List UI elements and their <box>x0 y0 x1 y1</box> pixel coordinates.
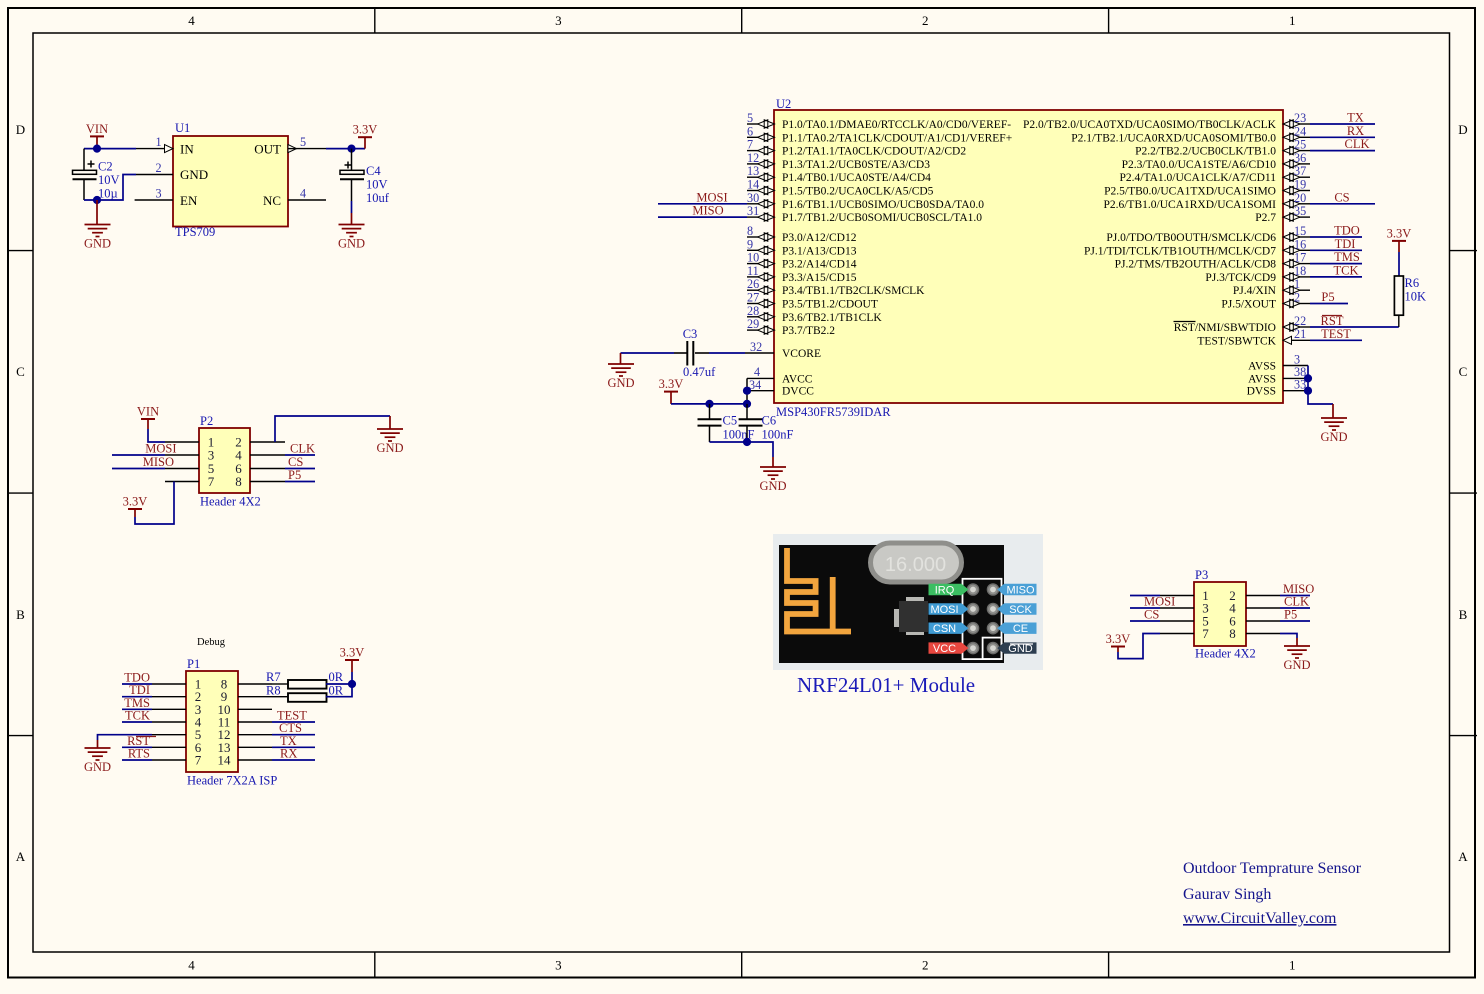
wire net CTS from P1 pin12 <box>272 721 315 735</box>
svg-text:C6: C6 <box>762 414 777 428</box>
svg-text:C: C <box>1459 364 1468 379</box>
U2 pin 3 AVSS <box>1248 353 1308 373</box>
svg-text:3.3V: 3.3V <box>353 123 378 137</box>
svg-text:37: 37 <box>1294 164 1306 178</box>
wire C3 to ground <box>621 352 688 354</box>
U2 pin 33 DVSS <box>1247 378 1308 398</box>
svg-text:14: 14 <box>218 753 232 768</box>
P1 pin 10 <box>218 702 273 717</box>
svg-text:MOSI: MOSI <box>696 190 727 204</box>
svg-text:30: 30 <box>747 191 759 205</box>
svg-text:7: 7 <box>747 138 753 152</box>
P1 pin 5 <box>152 727 201 742</box>
svg-text:VCORE: VCORE <box>782 348 821 360</box>
svg-text:VCC: VCC <box>933 643 956 655</box>
svg-text:3.3V: 3.3V <box>1106 632 1131 646</box>
P1 pin 13 <box>218 740 273 755</box>
svg-text:DVCC: DVCC <box>782 386 814 398</box>
svg-text:PJ.3/TCK/CD9: PJ.3/TCK/CD9 <box>1205 272 1276 284</box>
svg-text:P2.3/TA0.0/UCA1STE/A6/CD10: P2.3/TA0.0/UCA1STE/A6/CD10 <box>1122 159 1277 171</box>
svg-text:IN: IN <box>180 142 194 157</box>
capacitor C6 100nF <box>739 404 794 442</box>
wire net P5 from P2 pin8 <box>285 468 315 482</box>
svg-text:P1.4/TB0.1/UCA0STE/A4/CD4: P1.4/TB0.1/UCA0STE/A4/CD4 <box>782 172 931 184</box>
power flag 3.3V at U1 output <box>353 123 378 149</box>
wire P3 pin8 to ground <box>1280 634 1297 639</box>
svg-text:27: 27 <box>747 291 759 305</box>
svg-text:17: 17 <box>1294 251 1306 265</box>
svg-text:MISO: MISO <box>143 455 174 469</box>
svg-text:14: 14 <box>747 178 759 192</box>
U2 pin 21 TEST/SBWTCK <box>1197 327 1310 347</box>
U2 pin 36 P2.3 <box>1122 151 1310 171</box>
svg-text:1: 1 <box>155 135 161 149</box>
svg-text:U1: U1 <box>175 121 190 135</box>
resistor R8 0R <box>266 684 344 702</box>
svg-text:GND: GND <box>607 376 634 390</box>
svg-text:P2.4/TA1.0/UCA1CLK/A7/CD11: P2.4/TA1.0/UCA1CLK/A7/CD11 <box>1120 172 1277 184</box>
svg-text:10V: 10V <box>98 173 120 187</box>
wire net TEST from U2 pin 21 <box>1310 327 1362 341</box>
U2 pin 34 DVCC <box>747 378 814 398</box>
junction OUT/C4 <box>347 145 355 153</box>
svg-text:CLK: CLK <box>1284 595 1309 609</box>
wire net MOSI to U2 pin 30 <box>658 190 747 204</box>
svg-text:PJ.5/XOUT: PJ.5/XOUT <box>1221 299 1276 311</box>
wire net CLK from U2 pin 25 <box>1310 137 1375 151</box>
wire 3.3V to P3 pin7 <box>1118 634 1160 659</box>
ground GND left of C3 <box>607 353 634 390</box>
svg-text:3: 3 <box>555 13 562 28</box>
power flag VIN at P2 <box>137 405 159 430</box>
svg-text:OUT: OUT <box>254 142 281 157</box>
svg-text:7: 7 <box>208 474 215 489</box>
svg-text:AVSS: AVSS <box>1248 361 1276 373</box>
svg-text:P2.2/TB2.2/UCB0CLK/TB1.0: P2.2/TB2.2/UCB0CLK/TB1.0 <box>1135 146 1276 158</box>
U2 pin 14 P1.5 <box>747 178 934 198</box>
header P1 Header 7X2A ISP body <box>186 657 277 788</box>
svg-text:36: 36 <box>1294 151 1306 165</box>
P1 pin 9 <box>221 689 272 704</box>
wire net CLK from P3 pin4 <box>1280 595 1310 609</box>
junction AVSS pin38 <box>1304 374 1312 382</box>
U2 pin 5 P1.0 <box>747 111 1011 131</box>
svg-text:22: 22 <box>1294 314 1306 328</box>
svg-text:16: 16 <box>1294 237 1306 251</box>
wire net CS to P3 pin5 <box>1130 608 1160 622</box>
NRF24L01 module PCB <box>779 545 1004 663</box>
svg-text:SCK: SCK <box>1009 604 1032 616</box>
ground GND at P3 <box>1283 638 1310 672</box>
svg-text:www.CircuitValley.com: www.CircuitValley.com <box>1183 910 1337 927</box>
text NRF24L01+ Module <box>797 673 975 697</box>
svg-text:MSP430FR5739IDAR: MSP430FR5739IDAR <box>776 405 891 419</box>
U2 pin 10 P3.2 <box>747 251 857 271</box>
junction VIN/C2 <box>93 145 101 153</box>
wire net RTS to P1 pin7 <box>122 747 152 761</box>
svg-text:CE: CE <box>1013 623 1028 635</box>
svg-text:P3.1/A13/CD13: P3.1/A13/CD13 <box>782 245 857 257</box>
capacitor C5 100nF <box>698 404 755 442</box>
svg-text:Header 4X2: Header 4X2 <box>200 495 261 509</box>
svg-text:13: 13 <box>747 164 759 178</box>
P2 pin 8 <box>235 474 285 489</box>
wire VIN to P2 pin1 <box>148 429 165 442</box>
svg-text:C: C <box>16 364 25 379</box>
svg-text:P1.0/TA0.1/DMAE0/RTCCLK/A0/CD0: P1.0/TA0.1/DMAE0/RTCCLK/A0/CD0/VEREF- <box>782 119 1011 131</box>
svg-text:8: 8 <box>1229 626 1236 641</box>
svg-text:P1.1/TA0.2/TA1CLK/CDOUT/A1/CD1: P1.1/TA0.2/TA1CLK/CDOUT/A1/CD1/VEREF+ <box>782 132 1012 144</box>
P1 pin 6 <box>152 740 202 755</box>
svg-text:7: 7 <box>195 753 202 768</box>
svg-text:P3.6/TB2.1/TB1CLK: P3.6/TB2.1/TB1CLK <box>782 312 882 324</box>
wire net TDI from U2 pin 16 <box>1310 237 1362 251</box>
U2 pin 24 P2.1 <box>1071 124 1310 144</box>
junction R7/R8 3.3V <box>348 680 356 688</box>
svg-text:GND: GND <box>1283 658 1310 672</box>
U2 pin 37 P2.4 <box>1120 164 1310 184</box>
svg-text:100nF: 100nF <box>762 427 794 441</box>
svg-text:PJ.0/TDO/TB0OUTH/SMCLK/CD6: PJ.0/TDO/TB0OUTH/SMCLK/CD6 <box>1106 232 1276 244</box>
wire C5/C6 bottoms to ground <box>710 442 774 457</box>
U2 pin 30 P1.6 <box>747 191 984 211</box>
NRF24L01 label GND <box>997 642 1036 655</box>
power flag 3.3V at P2 <box>123 495 148 518</box>
svg-text:VIN: VIN <box>137 405 159 419</box>
U2 pin 9 P3.1 <box>747 237 857 257</box>
svg-text:3: 3 <box>555 958 562 973</box>
NRF24L01 label MOSI <box>929 603 969 616</box>
U1 pin 4 <box>288 187 326 201</box>
svg-text:CLK: CLK <box>1345 137 1370 151</box>
U2 pin 2 PJ.5 <box>1221 291 1310 311</box>
svg-text:P2.6/TB1.0/UCA1RXD/UCA1SOMI: P2.6/TB1.0/UCA1RXD/UCA1SOMI <box>1103 199 1276 211</box>
U2 pin 27 P3.5 <box>747 291 878 311</box>
U2 pin 25 P2.2 <box>1135 138 1310 158</box>
U1 pin 3 <box>135 187 173 201</box>
svg-text:TPS709: TPS709 <box>175 225 215 239</box>
svg-text:P1: P1 <box>187 657 200 671</box>
U1 pin 2 <box>136 161 173 175</box>
svg-text:P3.3/A15/CD15: P3.3/A15/CD15 <box>782 272 857 284</box>
wire net TX from P1 pin13 <box>272 734 315 748</box>
P1 pin 4 <box>152 715 202 730</box>
svg-text:4: 4 <box>300 187 306 201</box>
svg-text:35: 35 <box>1294 204 1306 218</box>
svg-text:GND: GND <box>338 237 365 251</box>
wire net MISO from P3 pin2 <box>1280 582 1314 596</box>
svg-text:CS: CS <box>288 455 303 469</box>
svg-text:GND: GND <box>84 760 111 774</box>
U2 pin 16 PJ.1 <box>1084 237 1310 257</box>
U2 pin 11 P3.3 <box>747 264 857 284</box>
svg-text:7: 7 <box>1202 626 1209 641</box>
power flag 3.3V at P1 <box>340 646 365 673</box>
capacitor C3 0.47uf <box>683 327 716 379</box>
svg-text:MISO: MISO <box>692 204 723 218</box>
svg-text:CS: CS <box>1334 190 1349 204</box>
ground GND below U2 right <box>1320 404 1347 444</box>
P1 pin 1 <box>152 677 201 692</box>
wire net MISO to U2 pin 31 <box>658 204 747 218</box>
wire net RX from P1 pin14 <box>272 747 315 761</box>
NRF24L01 label IRQ <box>929 584 969 597</box>
svg-text:VIN: VIN <box>86 122 108 136</box>
ground GND below C2 <box>84 200 111 251</box>
svg-text:P3.5/TB1.2/CDOUT: P3.5/TB1.2/CDOUT <box>782 299 878 311</box>
NRF24L01 chip <box>894 597 928 635</box>
svg-text:IRQ: IRQ <box>935 584 955 596</box>
svg-text:P2.1/TB2.1/UCA0RXD/UCA0SOMI/TB: P2.1/TB2.1/UCA0RXD/UCA0SOMI/TB0.0 <box>1071 132 1276 144</box>
svg-text:23: 23 <box>1294 111 1306 125</box>
U2 pin 22 RST/NMI/SBWTDIO <box>1174 314 1311 334</box>
P2 pin 6 <box>235 461 285 476</box>
power flag 3.3V above R6 <box>1387 226 1412 252</box>
resistor R6 10K <box>1394 276 1426 327</box>
U2 pin 35 P2.7 <box>1255 204 1310 224</box>
U2 pin 17 PJ.2 <box>1115 251 1310 271</box>
wire C4 to ground <box>351 201 353 213</box>
P2 pin 7 <box>165 474 215 489</box>
wire net TMS to P1 <box>122 696 152 710</box>
wire net TDO to P1 <box>122 671 152 685</box>
svg-text:C3: C3 <box>683 327 698 341</box>
P2 pin 5 <box>165 461 214 476</box>
NRF24L01 label MISO <box>997 584 1036 597</box>
svg-text:TCK: TCK <box>125 709 150 723</box>
svg-text:GND: GND <box>180 167 208 182</box>
wire net TCK to P1 <box>122 709 152 723</box>
svg-text:RST/NMI/SBWTDIO: RST/NMI/SBWTDIO <box>1174 322 1276 334</box>
P1 pin 12 <box>218 727 273 742</box>
svg-text:AVCC: AVCC <box>782 373 813 385</box>
resistor R7 0R <box>266 670 344 689</box>
P3 pin 6 <box>1229 614 1280 629</box>
svg-text:CLK: CLK <box>290 442 315 456</box>
svg-text:P3.2/A14/CD14: P3.2/A14/CD14 <box>782 259 857 271</box>
wire net TDO from U2 pin 15 <box>1310 224 1362 238</box>
svg-text:A: A <box>16 849 26 864</box>
junction DVCC <box>743 387 751 395</box>
wire net TDI to P1 <box>122 683 152 697</box>
svg-text:P3.4/TB1.1/TB2CLK/SMCLK: P3.4/TB1.1/TB2CLK/SMCLK <box>782 285 925 297</box>
svg-text:Outdoor Temprature Sensor: Outdoor Temprature Sensor <box>1183 860 1362 877</box>
svg-text:16.000: 16.000 <box>885 554 946 576</box>
svg-text:D: D <box>1458 122 1467 137</box>
wire C2 bottom to U1 GND pin <box>84 175 136 201</box>
P2 pin 1 <box>165 435 214 450</box>
svg-text:9: 9 <box>747 237 753 251</box>
NRF24L01 label CSN <box>929 623 969 636</box>
capacitor C2 10V 10u <box>73 149 120 201</box>
svg-text:NRF24L01+ Module: NRF24L01+ Module <box>797 673 975 697</box>
wire net RX from U2 pin 24 <box>1310 124 1375 138</box>
NRF24L01 label CE <box>997 623 1036 636</box>
P2 pin 3 <box>165 448 214 463</box>
svg-text:PJ.1/TDI/TCLK/TB1OUTH/MCLK/CD7: PJ.1/TDI/TCLK/TB1OUTH/MCLK/CD7 <box>1084 245 1276 257</box>
U2 pin 26 P3.4 <box>747 277 925 297</box>
svg-text:MOSI: MOSI <box>930 604 958 616</box>
svg-text:P2.0/TB2.0/UCA0TXD/UCA0SIMO/TB: P2.0/TB2.0/UCA0TXD/UCA0SIMO/TB0CLK/ACLK <box>1023 119 1277 131</box>
wire P1 pin5 to ground <box>98 735 153 740</box>
svg-text:TEST/SBWTCK: TEST/SBWTCK <box>1197 335 1276 347</box>
P3 pin 2 <box>1229 588 1280 603</box>
svg-text:U2: U2 <box>776 97 791 111</box>
svg-text:Gaurav Singh: Gaurav Singh <box>1183 886 1271 903</box>
svg-text:2: 2 <box>1294 291 1300 305</box>
svg-text:3.3V: 3.3V <box>123 495 148 509</box>
P2 pin 4 <box>235 448 285 463</box>
NRF24L01 antenna <box>787 548 851 632</box>
op-amp U1 TPS709 body <box>173 121 288 239</box>
svg-text:20: 20 <box>1294 191 1306 205</box>
svg-text:RX: RX <box>1347 124 1364 138</box>
NRF24L01 pin frame boxes <box>963 579 1002 659</box>
svg-text:0.47uf: 0.47uf <box>683 365 716 379</box>
NRF24L01 header pads <box>967 584 998 654</box>
svg-text:3: 3 <box>155 187 161 201</box>
svg-text:4: 4 <box>754 365 760 379</box>
wire 3.3V stub to R7/R8 <box>351 672 353 684</box>
wire net TMS from U2 pin 17 <box>1310 250 1362 264</box>
svg-text:R7: R7 <box>266 670 281 684</box>
NRF24L01 label SCK <box>997 603 1036 616</box>
svg-text:TX: TX <box>1347 111 1364 125</box>
P1 pin 7 <box>152 753 202 768</box>
header P3 Header 4X2 body <box>1194 568 1256 661</box>
P2 pin 2 <box>235 435 285 450</box>
junction C5 top <box>705 400 713 408</box>
svg-text:19: 19 <box>1294 178 1306 192</box>
wire to P3 pin1 <box>1130 595 1160 597</box>
U1 pin 1 <box>136 135 173 153</box>
svg-text:TMS: TMS <box>1334 250 1360 264</box>
P1 pin 8 <box>221 677 272 692</box>
P3 pin 4 <box>1229 601 1280 616</box>
header P2 Header 4X2 body <box>199 414 261 509</box>
svg-text:P3.0/A12/CD12: P3.0/A12/CD12 <box>782 232 857 244</box>
svg-text:Header 4X2: Header 4X2 <box>1195 647 1256 661</box>
svg-text:P1.6/TB1.1/UCB0SIMO/UCB0SDA/TA: P1.6/TB1.1/UCB0SIMO/UCB0SDA/TA0.0 <box>782 199 984 211</box>
svg-text:28: 28 <box>747 304 759 318</box>
svg-text:10V: 10V <box>366 178 388 192</box>
svg-text:GND: GND <box>1008 643 1033 655</box>
ground GND below C5/C6 <box>759 457 786 493</box>
svg-text:R6: R6 <box>1405 276 1420 290</box>
U2 pin 18 PJ.3 <box>1205 264 1310 284</box>
svg-text:5: 5 <box>300 135 306 149</box>
svg-text:B: B <box>16 607 25 622</box>
svg-text:8: 8 <box>235 474 242 489</box>
wire net TX from U2 pin 23 <box>1310 111 1375 125</box>
U2 pin 12 P1.3 <box>747 151 930 171</box>
wire net MOSI to P3 pin3 <box>1130 595 1175 609</box>
svg-text:2: 2 <box>922 13 929 28</box>
wire net TCK from U2 pin 18 <box>1310 263 1362 277</box>
svg-text:P1.3/TA1.2/UCB0STE/A3/CD3: P1.3/TA1.2/UCB0STE/A3/CD3 <box>782 159 930 171</box>
NRF24L01 crystal 16.000 <box>871 543 962 582</box>
power flag VIN <box>86 122 108 149</box>
U2 pin 4 AVCC <box>747 365 813 385</box>
svg-text:11: 11 <box>747 264 759 278</box>
ground GND at P2 <box>376 416 403 455</box>
border row letters <box>16 122 1469 864</box>
svg-text:C5: C5 <box>723 414 738 428</box>
svg-text:24: 24 <box>1294 124 1306 138</box>
svg-text:1: 1 <box>1289 13 1296 28</box>
wire net MISO to P2 pin5 <box>112 455 174 469</box>
wire net CS from P2 pin6 <box>285 455 315 469</box>
svg-text:3.3V: 3.3V <box>1387 226 1412 240</box>
P3 pin 3 <box>1160 601 1209 616</box>
ground GND at P1 <box>84 740 111 774</box>
svg-text:Header 7X2A ISP: Header 7X2A ISP <box>187 774 277 788</box>
junction C6 top <box>743 400 751 408</box>
svg-text:1: 1 <box>1294 277 1300 291</box>
svg-text:25: 25 <box>1294 138 1306 152</box>
U2 pin 38 AVSS <box>1248 365 1308 385</box>
svg-text:RX: RX <box>280 747 297 761</box>
wire net CLK from P2 pin4 <box>285 442 315 456</box>
U2 pin 32 VCORE <box>745 340 821 360</box>
svg-text:A: A <box>1458 849 1468 864</box>
svg-text:P2.7: P2.7 <box>1255 212 1276 224</box>
svg-text:P1.5/TB0.2/UCA0CLK/A5/CD5: P1.5/TB0.2/UCA0CLK/A5/CD5 <box>782 186 934 198</box>
junction C6 bottom <box>743 438 751 446</box>
svg-text:12: 12 <box>747 151 759 165</box>
svg-text:C4: C4 <box>366 164 381 178</box>
svg-text:GND: GND <box>759 479 786 493</box>
U2 pin 29 P3.7 <box>747 317 835 337</box>
P1 pin 2 <box>152 689 201 704</box>
svg-text:C2: C2 <box>98 160 113 174</box>
wire net MOSI to P2 pin3 <box>112 442 177 456</box>
svg-text:NC: NC <box>263 193 281 208</box>
svg-text:3.3V: 3.3V <box>340 646 365 660</box>
svg-text:29: 29 <box>747 317 759 331</box>
title www.CircuitValley.com <box>1183 910 1337 927</box>
NRF24L01 module picture panel <box>773 534 1043 670</box>
wire P2 pin2 to ground <box>275 416 390 442</box>
U2 pin 13 P1.4 <box>747 164 931 184</box>
junction DVSS pin33 <box>1304 387 1312 395</box>
svg-text:TDI: TDI <box>1335 237 1356 251</box>
svg-text:2: 2 <box>155 161 161 175</box>
U2 pin 31 P1.7 <box>747 204 982 224</box>
svg-text:10uf: 10uf <box>366 191 390 205</box>
svg-text:CS: CS <box>1144 608 1159 622</box>
P3 pin 7 <box>1160 626 1209 641</box>
svg-text:10K: 10K <box>1405 290 1427 304</box>
wire 3.3V to P2 pin7 <box>135 482 174 525</box>
svg-text:26: 26 <box>747 277 759 291</box>
wire net RST from U2 pin 22 to R6 <box>1310 314 1399 328</box>
svg-text:10: 10 <box>747 251 759 265</box>
P3 pin 1 <box>1160 588 1209 603</box>
svg-text:DVSS: DVSS <box>1247 386 1276 398</box>
svg-text:RTS: RTS <box>128 747 150 761</box>
svg-text:31: 31 <box>747 204 759 218</box>
svg-text:P1.7/TB1.2/UCB0SOMI/UCB0SCL/TA: P1.7/TB1.2/UCB0SOMI/UCB0SCL/TA1.0 <box>782 212 982 224</box>
svg-text:4: 4 <box>188 13 195 28</box>
capacitor C4 10V 10uf <box>340 149 390 205</box>
svg-text:GND: GND <box>84 237 111 251</box>
svg-text:TEST: TEST <box>1321 327 1351 341</box>
svg-text:MISO: MISO <box>1006 584 1035 596</box>
svg-text:GND: GND <box>376 441 403 455</box>
wire net P5 from P3 pin6 <box>1280 608 1310 622</box>
power flag 3.3V at P3 <box>1106 632 1131 652</box>
